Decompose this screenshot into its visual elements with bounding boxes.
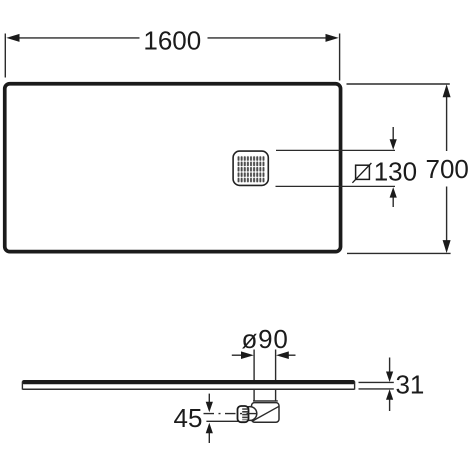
svg-text:31: 31 xyxy=(395,370,424,400)
svg-text:1600: 1600 xyxy=(143,25,201,55)
svg-text:700: 700 xyxy=(426,154,469,184)
svg-text:ø90: ø90 xyxy=(241,324,288,354)
svg-text:130: 130 xyxy=(374,156,417,186)
svg-text:45: 45 xyxy=(174,403,203,433)
